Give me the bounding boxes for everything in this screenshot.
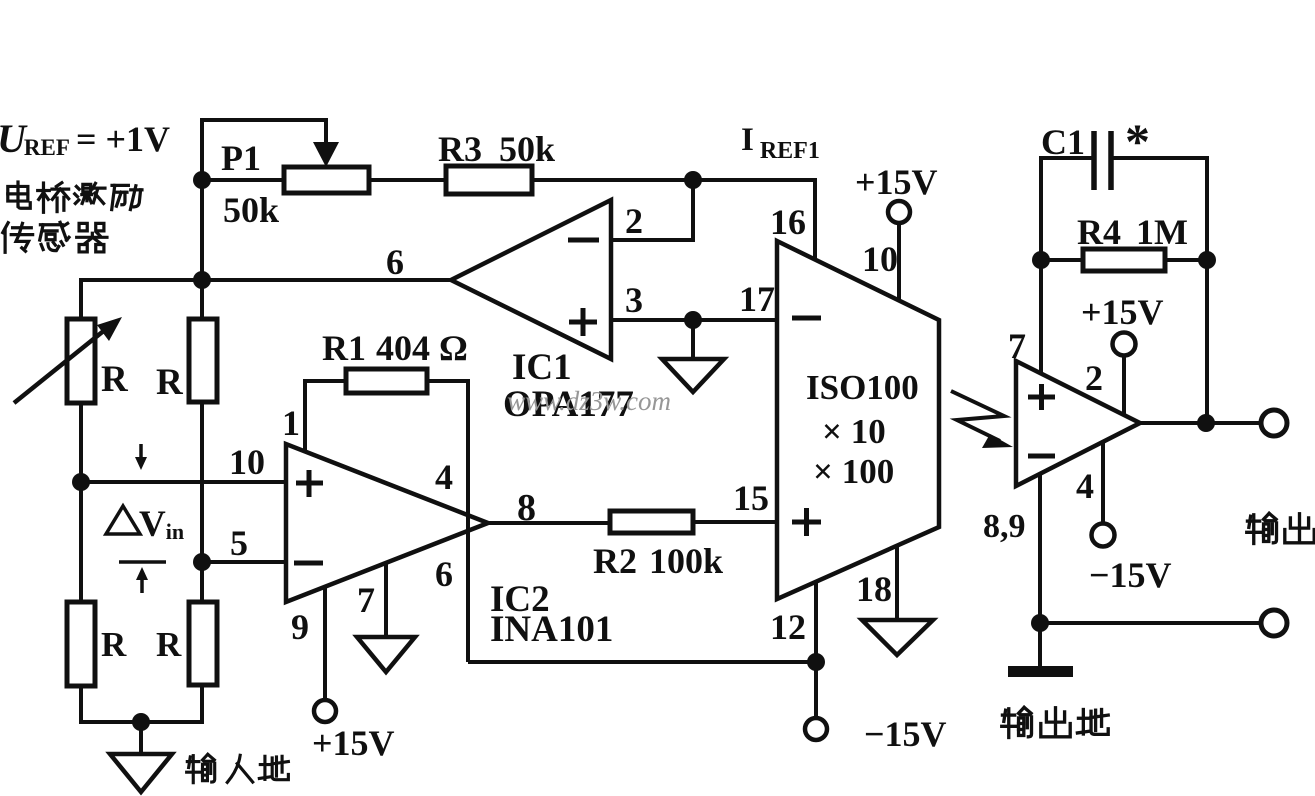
svg-text:1M: 1M (1136, 212, 1188, 252)
wire: input ground stem (139, 722, 143, 754)
wire: P1 left lead (202, 178, 284, 182)
junction node output (1197, 414, 1215, 432)
hanzi shu (input-ground 1) (187, 754, 215, 782)
op-amp +15V terminal circle (1113, 333, 1136, 356)
ISO100 pin10 +15V terminal (888, 201, 910, 223)
wire: op-amp pins 8,9 down to output ground rail (1038, 472, 1042, 623)
svg-text:R3: R3 (438, 129, 482, 169)
svg-text:2: 2 (1085, 358, 1103, 398)
resistor R top-right (189, 319, 217, 402)
wire: IC2 pin9 stub (323, 585, 327, 700)
svg-text:16: 16 (770, 202, 806, 242)
junction node IC1 pin3 (684, 311, 702, 329)
output op-amp triangle (1016, 361, 1140, 486)
input ground triangle (110, 754, 172, 792)
junction node P1 left (193, 171, 211, 189)
svg-text:8: 8 (517, 487, 536, 529)
junction node bridge top (193, 271, 211, 289)
svg-text:= +1V: = +1V (76, 119, 170, 159)
svg-text:P1: P1 (221, 138, 261, 178)
svg-text:R2: R2 (593, 541, 637, 581)
hanzi chu (output 2) (1285, 514, 1314, 543)
up arrow toward overbar (140, 579, 144, 593)
svg-text:R4: R4 (1077, 212, 1121, 252)
wire: ISO100 pin18 to ground (895, 545, 899, 620)
isolation barrier arrow (951, 391, 1004, 441)
wire: R1 right to feedback vertical down to bottom rail (427, 381, 468, 662)
potentiometer P1 body (284, 167, 369, 193)
svg-text:17: 17 (739, 279, 775, 319)
wire: right bridge mid to IC2 pin5 (202, 560, 286, 564)
wire: IC2 pin1 stub to R1 (305, 381, 346, 452)
wire: feedback vertical crossing IC2 tip (466, 505, 470, 662)
svg-text:R: R (156, 362, 184, 403)
svg-text:R: R (156, 625, 182, 664)
svg-text:404 Ω: 404 Ω (376, 328, 468, 368)
svg-text:INA101: INA101 (490, 609, 613, 650)
svg-text:9: 9 (291, 607, 309, 647)
hanzi qiao (bridge) (38, 183, 69, 213)
wire: IREF node to ISO100 pin16 (693, 180, 815, 262)
hanzi di (output-ground 3) (1077, 710, 1108, 735)
junction node bridge left mid (72, 473, 90, 491)
svg-text:−15V: −15V (864, 714, 947, 754)
svg-text:−15V: −15V (1089, 555, 1172, 595)
wire: bottom rail to ISO100 pin12 node (468, 660, 816, 664)
wire: bridge bottom (81, 684, 202, 722)
svg-text:IC1: IC1 (512, 347, 572, 388)
svg-text:ISO100: ISO100 (806, 368, 919, 407)
wire: output ground stem (1038, 623, 1042, 666)
ISO100 isolation amplifier body (777, 241, 939, 599)
hanzi chuan (transmit) (3, 223, 33, 253)
P1 wiper arrow (324, 118, 328, 143)
svg-text:15: 15 (733, 478, 769, 518)
resistor R4 body (1083, 249, 1165, 271)
svg-text:C1: C1 (1041, 122, 1085, 162)
svg-text:3: 3 (625, 280, 643, 320)
output terminal circle top (1261, 410, 1287, 436)
wire: main vertical from top loop to bridge (200, 118, 204, 321)
svg-text:+15V: +15V (855, 162, 938, 202)
output terminal circle bottom (1261, 610, 1287, 636)
wire: ISO100 pin10 supply (897, 223, 901, 303)
wire: left bridge mid to IC2 pin10 (79, 402, 83, 606)
ISO100 pin12 -15V terminal (805, 718, 827, 740)
junction node R4 right (1198, 251, 1216, 269)
ground under ISO100 pin18 (862, 620, 933, 655)
ground under IC2 pin7 (357, 637, 415, 672)
junction node R4 left (1032, 251, 1050, 269)
IC1 minus input mark (568, 238, 599, 243)
wire: right bridge column (200, 402, 204, 606)
wire: output ground rail to lower terminal (1040, 621, 1261, 625)
hanzi ji (excite) (75, 183, 105, 203)
svg-text:18: 18 (856, 569, 892, 609)
svg-text:100k: 100k (649, 541, 723, 581)
hanzi chu (output-ground 2) (1041, 708, 1070, 737)
wire: IC1 pin3 to ISO100 pin17 (611, 318, 777, 322)
hanzi qi (device) (77, 223, 107, 252)
svg-text:6: 6 (386, 242, 404, 282)
junction node IREF (684, 171, 702, 189)
wire: left feedback vertical to op-amp pin7 (1039, 156, 1043, 375)
hanzi shu (output-ground 1) (1002, 707, 1032, 737)
hanzi gan (sense) (40, 222, 69, 250)
svg-text:2: 2 (625, 201, 643, 241)
overbar below Vin (119, 560, 166, 564)
svg-text:UREF: UREF (0, 116, 70, 161)
junction node -15V rail (807, 653, 825, 671)
resistor R bottom-right (189, 602, 217, 685)
op-amp IC2 triangle (286, 444, 488, 602)
wire: R4 leads (1041, 258, 1083, 262)
svg-text:6: 6 (435, 554, 453, 594)
wire: P1 top loop (202, 120, 326, 141)
ISO100 plus input mark (792, 508, 821, 536)
svg-text:R: R (101, 625, 127, 664)
resistor R1 body (346, 369, 427, 393)
svg-text:8,9: 8,9 (983, 508, 1026, 545)
junction node bridge right mid (193, 553, 211, 571)
wire: ISO100 pin12 down to -15V (814, 580, 818, 718)
op-amp IC1 triangle (451, 200, 611, 359)
wire: op-amp output to terminal (1140, 421, 1261, 425)
ISO100 minus input mark (792, 316, 821, 321)
delta Vin label (106, 506, 140, 534)
down arrow above Vin (139, 444, 143, 458)
hanzi ru (input-ground 2) (227, 755, 252, 782)
resistor R top-left (variable) (67, 319, 95, 403)
wire: IC1 output to bridge node (202, 278, 451, 282)
variable resistor arrow (14, 329, 106, 403)
IC2 plus input mark (296, 470, 323, 497)
svg-text:4: 4 (1076, 466, 1094, 506)
wire: op-amp pin2 supply (1122, 356, 1126, 414)
resistor R3 body (446, 166, 532, 194)
svg-text:50k: 50k (499, 129, 555, 169)
wire: P1 to R3 (369, 178, 446, 182)
svg-text:R: R (101, 359, 129, 400)
svg-text:10: 10 (862, 239, 898, 279)
svg-text:7: 7 (357, 580, 375, 620)
svg-text:× 10: × 10 (822, 412, 886, 451)
wire: IC2 output to R2 (488, 521, 610, 525)
svg-text:+15V: +15V (312, 723, 395, 763)
output ground bar (1008, 666, 1073, 677)
wire: right feedback vertical to output node (1205, 156, 1209, 423)
svg-text:50k: 50k (223, 190, 279, 230)
svg-text:12: 12 (770, 607, 806, 647)
svg-text:www.dz3w.com: www.dz3w.com (507, 386, 671, 416)
svg-text:4: 4 (435, 457, 453, 497)
IC2 pin9 +15V terminal (314, 700, 336, 722)
svg-text:1: 1 (282, 403, 300, 443)
svg-text:Vin: Vin (139, 504, 184, 545)
op-amp -15V terminal circle (1092, 524, 1115, 547)
svg-text:× 100: × 100 (813, 452, 894, 491)
wire: bridge top horizontal (81, 280, 202, 324)
hanzi li (encourage) (112, 185, 142, 209)
output op-amp plus mark (1028, 384, 1055, 410)
svg-text:I REF1: I REF1 (741, 122, 820, 164)
svg-text:10: 10 (229, 442, 265, 482)
wire: R3 to IREF node (532, 178, 693, 182)
ground under IC1 pin3 (662, 359, 724, 392)
svg-text:5: 5 (230, 523, 248, 563)
svg-text:+15V: +15V (1081, 292, 1164, 332)
junction node output ground (1031, 614, 1049, 632)
wire: C1 top feedback (1041, 156, 1092, 160)
output op-amp minus mark (1028, 454, 1055, 459)
hanzi dian (electric) (8, 182, 30, 208)
resistor R2 body (610, 511, 693, 533)
hanzi shu (output 1) (1247, 513, 1277, 543)
wire: IC1 pin2 (611, 180, 693, 240)
junction node bridge bottom (132, 713, 150, 731)
resistor R bottom-left (67, 602, 95, 686)
svg-text:7: 7 (1008, 326, 1026, 366)
hanzi di (input-ground 3) (259, 756, 288, 779)
capacitor C1 plates (1094, 131, 1111, 190)
wire: IC2 pin7 stub (384, 561, 388, 637)
wire: IC1 ground stem (691, 320, 695, 359)
IC2 minus input mark (294, 561, 323, 566)
svg-text:R1: R1 (322, 328, 366, 368)
svg-text:*: * (1125, 113, 1150, 169)
IC1 plus input mark (569, 308, 597, 336)
wire: R2 to ISO100 pin15 (693, 520, 777, 524)
wire: op-amp pin4 supply (1101, 441, 1105, 524)
